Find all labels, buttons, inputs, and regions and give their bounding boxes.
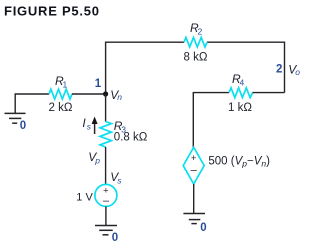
svg-text:–: – — [191, 165, 198, 177]
svg-text:s: s — [87, 122, 92, 132]
wire from R4 to node 2 — [253, 92, 285, 94]
svg-text:0: 0 — [112, 232, 118, 244]
node label Vp — [88, 150, 100, 166]
svg-text:0: 0 — [200, 222, 206, 234]
ground bottom middle — [95, 226, 117, 235]
svg-text:0.8 kΩ: 0.8 kΩ — [114, 131, 148, 143]
resistor R1 — [49, 89, 72, 99]
wire from R3 down to voltage source — [105, 147, 107, 185]
svg-text:s: s — [117, 175, 122, 185]
dependent voltage source 500(Vp-Vn) — [183, 147, 204, 184]
wire from dependent source up and right to R4 — [193, 93, 229, 148]
voltage source Vs — [95, 184, 117, 207]
wire from voltage source to bottom ground — [105, 206, 107, 225]
svg-text:p: p — [94, 155, 100, 165]
wire from node 1 up and along top rail to R2 — [106, 42, 184, 94]
ground left — [5, 113, 26, 123]
svg-text:–: – — [103, 195, 110, 207]
resistor R4 — [229, 88, 253, 98]
svg-text:1: 1 — [95, 78, 102, 90]
label R2 — [190, 21, 203, 37]
node 1 junction dot — [103, 91, 108, 96]
svg-text:1 V: 1 V — [76, 191, 93, 203]
wire from R2 right along top rail and down to node 2 — [207, 42, 285, 92]
svg-text:2: 2 — [276, 64, 282, 76]
label R4 — [232, 72, 245, 88]
svg-text:+: + — [191, 153, 197, 164]
node label Vn — [110, 88, 122, 102]
current arrow Is — [92, 117, 98, 135]
svg-text:500 (Vp−Vn): 500 (Vp−Vn) — [208, 156, 270, 169]
wire from left ground up and right to R1 — [15, 94, 49, 113]
node label Vo — [288, 62, 300, 76]
svg-text:1 kΩ: 1 kΩ — [228, 102, 252, 114]
svg-text:o: o — [295, 67, 300, 77]
label R3 — [114, 119, 127, 135]
ground bottom right — [183, 214, 205, 224]
svg-text:2 kΩ: 2 kΩ — [49, 102, 73, 114]
svg-text:FIGURE P5.50: FIGURE P5.50 — [4, 4, 100, 19]
svg-text:2: 2 — [198, 27, 203, 37]
svg-text:I: I — [82, 116, 86, 130]
label Is — [82, 116, 91, 132]
svg-text:0: 0 — [20, 120, 26, 132]
svg-text:8 kΩ: 8 kΩ — [184, 52, 208, 64]
wire from R1 to node 1 — [72, 93, 106, 95]
wire from dependent source to right ground — [193, 184, 195, 213]
svg-text:1: 1 — [63, 79, 68, 89]
svg-text:4: 4 — [240, 78, 245, 88]
resistor R2 — [184, 37, 207, 47]
node label Vs — [110, 170, 122, 186]
resistor R3 — [100, 122, 111, 148]
wire from node 1 down to R3 — [105, 94, 107, 122]
label R1 — [55, 74, 68, 90]
svg-text:n: n — [117, 92, 122, 102]
